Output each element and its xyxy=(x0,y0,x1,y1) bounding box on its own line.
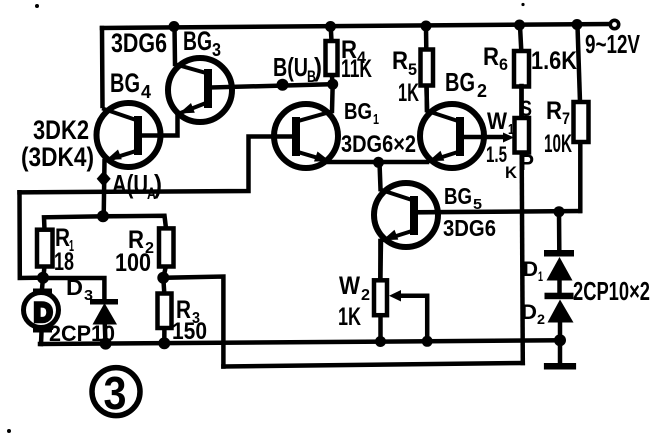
svg-text:7: 7 xyxy=(562,109,570,128)
wire: W2 wiper lead right then down to bottom wire xyxy=(399,296,427,342)
wire: BG1 base lead left and down to lower-left wire xyxy=(20,137,297,193)
potentiometer W2 body xyxy=(374,241,387,342)
node: R3 bottom junction xyxy=(158,337,170,349)
node: junction emitters / BG5 collector xyxy=(373,157,384,168)
wiper arrow of W2 pointing left into body xyxy=(389,290,401,302)
ground symbol xyxy=(544,340,576,369)
svg-text:1.5: 1.5 xyxy=(486,142,507,167)
wire: BG4 emitter drop through node A to R1/R2 junction xyxy=(101,161,106,217)
wire: BG2 collector riser to R5 bottom xyxy=(424,86,429,111)
transistor BG1 xyxy=(274,104,338,168)
svg-text:2: 2 xyxy=(361,287,370,304)
svg-text:3DG6: 3DG6 xyxy=(443,215,496,241)
node: rail junction at R5 xyxy=(421,21,432,32)
scan speck bottom-left xyxy=(7,429,11,433)
node A (U_A) diamond dot xyxy=(97,171,111,187)
wire: BG3 collector riser to rail xyxy=(172,26,177,64)
svg-text:18: 18 xyxy=(54,248,74,276)
lamp/meter D top lead xyxy=(42,278,43,289)
wire: BG3 emitter to BG4 base xyxy=(141,113,178,136)
node: rail junction at R6 xyxy=(514,20,525,31)
svg-text:100: 100 xyxy=(115,249,151,277)
wire: long bottom distribution wire xyxy=(40,340,560,344)
svg-text:W: W xyxy=(339,272,360,300)
svg-text:4: 4 xyxy=(141,82,151,102)
terminal: 9~12V supply open circle xyxy=(610,20,618,28)
node: rail junction above BG3 xyxy=(169,21,180,32)
wire: BG1 collector riser to R4 node xyxy=(330,84,335,111)
wire: left box drop from rail to BG4 collector xyxy=(100,28,105,106)
svg-text:BG: BG xyxy=(344,98,372,124)
node: D2 bottom junction xyxy=(554,334,566,346)
resistor R3 xyxy=(158,278,172,344)
svg-text:R: R xyxy=(483,43,499,71)
node: B(U_B) test point dot xyxy=(277,79,289,91)
diode D1 (pointing up) xyxy=(544,212,574,281)
svg-text:): ) xyxy=(314,52,322,82)
svg-text:BG: BG xyxy=(183,26,212,56)
svg-text:11K: 11K xyxy=(341,55,372,83)
node: rail junction at R7 xyxy=(572,19,583,30)
svg-text:R: R xyxy=(392,47,408,75)
svg-text:1: 1 xyxy=(508,121,514,138)
node: junction R4 bottom / BG1 collector xyxy=(327,79,338,90)
resistor R1 xyxy=(37,216,103,277)
svg-text:BG: BG xyxy=(110,68,140,98)
svg-text:K: K xyxy=(505,163,518,182)
resistor R2 xyxy=(103,216,174,278)
resistor R6 xyxy=(514,26,529,118)
resistor R7 xyxy=(574,26,589,211)
svg-text:2CP10×2: 2CP10×2 xyxy=(573,276,650,306)
svg-text:3DK2: 3DK2 xyxy=(33,115,89,145)
wire: drop from emitter rail to BG5 collector xyxy=(380,162,381,189)
svg-text:(3DK4): (3DK4) xyxy=(21,142,94,172)
wire: R2/R3 junction right then down to bottom rail xyxy=(163,277,223,367)
svg-text:1: 1 xyxy=(373,111,379,128)
svg-text:1.6K: 1.6K xyxy=(531,47,577,75)
svg-text:S: S xyxy=(520,96,532,121)
potentiometer W1 body xyxy=(515,86,530,363)
node: W2 wiper junction on bottom wire xyxy=(422,336,433,347)
svg-text:D: D xyxy=(66,275,83,300)
wire: BG2 base lead to W1 wiper xyxy=(462,135,505,140)
svg-text:W: W xyxy=(487,108,507,135)
wire: lower ground return rail xyxy=(223,363,522,367)
node: junction R1 top / R2 top xyxy=(97,210,109,222)
node: junction BG5 base wire / D1 top xyxy=(554,206,565,217)
resistor R4 xyxy=(326,28,338,84)
svg-text:D: D xyxy=(521,301,537,324)
node: junction R1 bottom / D top / D3 branch xyxy=(37,272,49,284)
figure number circled 3 xyxy=(92,368,140,416)
diode D2 (pointing up) xyxy=(545,280,574,340)
svg-text:2: 2 xyxy=(477,81,487,101)
svg-text:D: D xyxy=(523,258,538,281)
svg-text:BG: BG xyxy=(445,67,475,97)
svg-text:3DG6×2: 3DG6×2 xyxy=(341,131,416,158)
wire: BG3 base to B node and R4 bottom xyxy=(211,84,333,87)
lamp/meter D (circle with terminal bars) xyxy=(24,289,59,345)
svg-text:150: 150 xyxy=(172,318,207,345)
node: junction R2 bottom / R3 top xyxy=(157,272,169,284)
svg-text:P: P xyxy=(520,150,534,175)
wire: BG5 base lead right to R7 bottom corner xyxy=(416,211,580,212)
svg-text:3: 3 xyxy=(212,40,221,60)
svg-text:2CP10: 2CP10 xyxy=(49,321,115,346)
wire: top power rail xyxy=(102,24,610,28)
svg-text:1: 1 xyxy=(538,268,543,284)
resistor R5 xyxy=(421,28,434,110)
svg-text:B(U: B(U xyxy=(273,52,308,82)
wire: branch from R1 bottom node right to D3 cathode xyxy=(43,278,104,299)
wire: left drop to R1 bottom xyxy=(20,192,44,278)
node: D3 bottom junction xyxy=(100,338,112,350)
svg-text:): ) xyxy=(154,169,162,199)
svg-text:3: 3 xyxy=(84,287,93,304)
scan speck top-left xyxy=(35,4,39,8)
svg-text:1K: 1K xyxy=(338,303,361,331)
svg-text:6: 6 xyxy=(499,55,508,74)
node: W2 bottom junction xyxy=(375,336,386,347)
node: rail junction at R4 xyxy=(325,21,336,32)
scan speck top-right xyxy=(521,3,524,6)
wire: emitters of BG1 and BG2 common rail xyxy=(329,160,427,165)
svg-text:3DG6: 3DG6 xyxy=(111,28,167,58)
transistor BG3 xyxy=(168,58,232,122)
transistor BG5 xyxy=(374,183,438,247)
transistor BG4 xyxy=(97,103,161,167)
svg-text:1K: 1K xyxy=(398,79,419,107)
svg-text:BG: BG xyxy=(444,183,472,209)
svg-text:3: 3 xyxy=(104,367,127,419)
wire: BG5 emitter drop to W2 top xyxy=(378,241,383,280)
svg-text:5: 5 xyxy=(408,60,417,79)
wiper arrow of W1 pointing right xyxy=(503,133,514,143)
svg-text:A(U: A(U xyxy=(112,169,148,199)
svg-text:10K: 10K xyxy=(544,130,572,158)
svg-text:5: 5 xyxy=(473,196,482,213)
svg-text:R: R xyxy=(546,97,562,125)
svg-text:9~12V: 9~12V xyxy=(585,29,640,59)
transistor BG2 xyxy=(420,104,484,168)
svg-text:2: 2 xyxy=(537,311,545,327)
diode D3 (cathode bar up, pointing up) xyxy=(90,299,118,344)
